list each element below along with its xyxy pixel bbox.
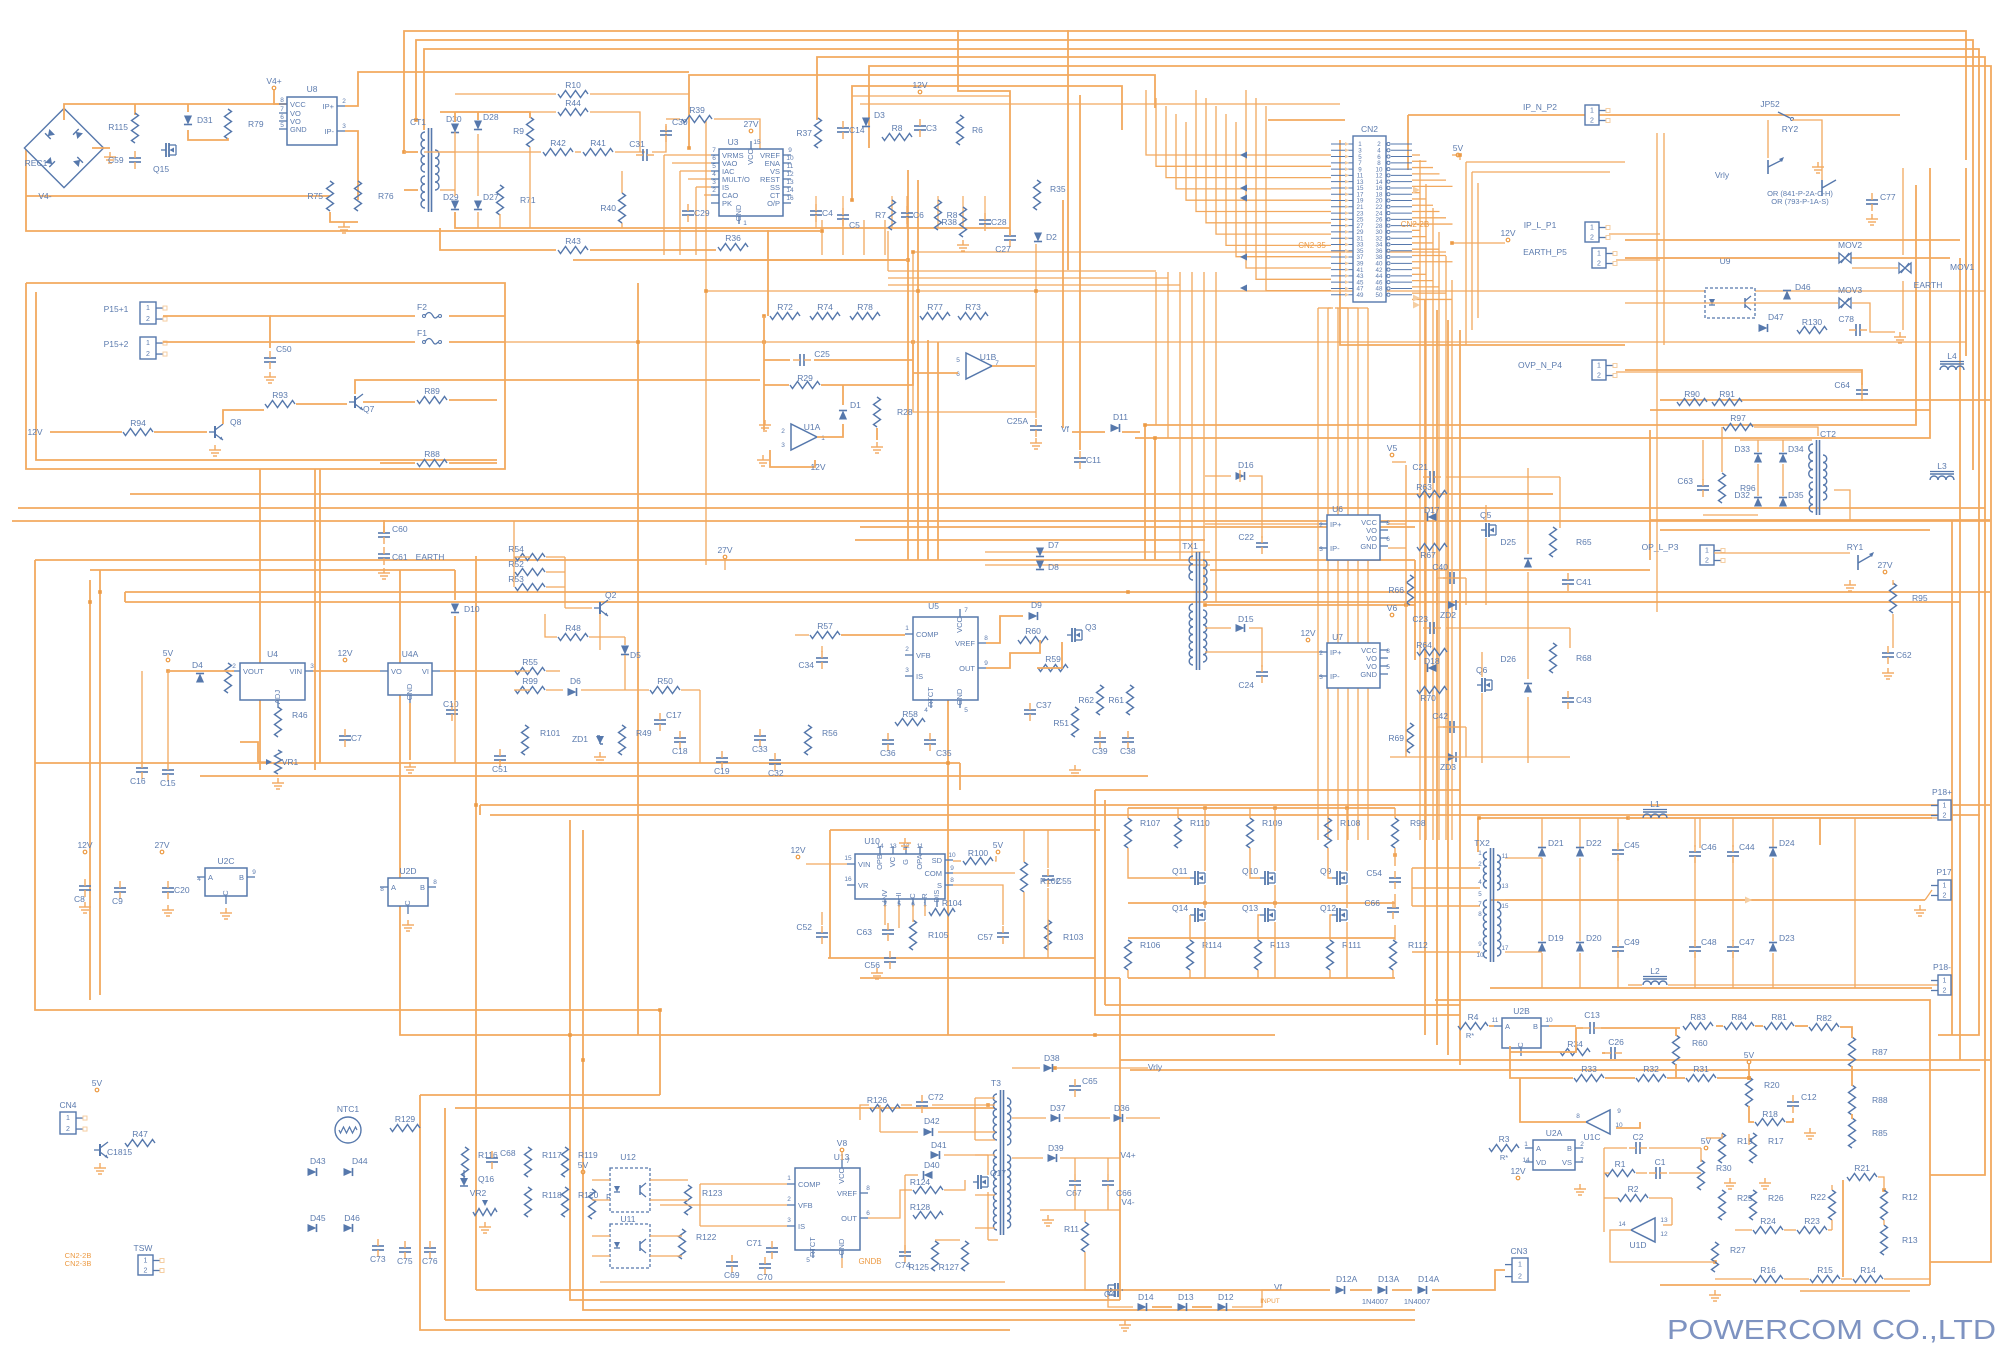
bus arrow <box>1240 195 1247 202</box>
wire h y172 <box>1472 171 1610 173</box>
diode D37 <box>1051 1114 1060 1122</box>
svg-text:R52: R52 <box>508 559 524 569</box>
svg-text:R88: R88 <box>424 449 440 459</box>
wire 5v r19 <box>1706 1137 1722 1139</box>
svg-text:A: A <box>208 873 213 882</box>
svg-text:R51: R51 <box>1053 718 1069 728</box>
wire jp52 down <box>1792 120 1822 180</box>
stub <box>124 592 126 602</box>
resistor R41 <box>583 149 613 156</box>
svg-text:R36: R36 <box>725 233 741 243</box>
wire out bot stub <box>1617 953 1619 988</box>
svg-text:C55: C55 <box>1056 876 1072 886</box>
wire r54 l stub <box>514 556 530 558</box>
wire p17 link <box>1925 890 1932 900</box>
svg-text:C29: C29 <box>694 208 710 218</box>
diode D23 <box>1769 943 1777 952</box>
wire res top stub <box>1127 808 1129 818</box>
wire u1d pin13 <box>1663 1224 1672 1226</box>
wire r24 r23 <box>1784 1229 1796 1231</box>
wire c2 r30 <box>1649 1147 1701 1149</box>
svg-text:C22: C22 <box>1238 532 1254 542</box>
svg-text:U2C: U2C <box>217 856 234 866</box>
svg-text:Q13: Q13 <box>1242 903 1258 913</box>
wire r75 r76 <box>330 212 358 222</box>
wire hb rail m <box>1128 902 1395 904</box>
wire c42 top <box>1437 726 1466 728</box>
transformer TX1 <box>1196 552 1198 670</box>
wire CN2 harness left <box>1146 90 1331 155</box>
wire above logo <box>1800 1290 1910 1292</box>
svg-text:R74: R74 <box>817 302 833 312</box>
svg-text:4: 4 <box>1478 879 1482 886</box>
bus arrow <box>1240 185 1247 192</box>
svg-text:D39: D39 <box>1048 1143 1064 1153</box>
svg-text:D22: D22 <box>1586 838 1602 848</box>
transistor Q13 <box>1264 908 1266 922</box>
op-amp U1D <box>1631 1218 1655 1242</box>
relay contact 2 <box>1821 180 1823 196</box>
wire CN2 right stub <box>1412 298 1453 300</box>
resistor R24 <box>1753 1227 1783 1234</box>
stub2 <box>959 763 961 790</box>
svg-text:V5: V5 <box>1387 443 1398 453</box>
wire u12 stub l <box>592 1199 610 1201</box>
resistor R93 <box>265 401 295 408</box>
diode D18 <box>1428 664 1437 672</box>
wire CN2 right stub <box>1412 192 1420 194</box>
svg-text:RY1: RY1 <box>1847 542 1864 552</box>
resistor R33 <box>1574 1075 1604 1082</box>
relay RY2 <box>1778 112 1790 118</box>
wire bus 9 <box>1067 30 1069 270</box>
svg-text:8: 8 <box>950 877 954 884</box>
svg-text:R70: R70 <box>1420 693 1436 703</box>
wire r57 u5 <box>841 634 905 636</box>
wire q5 src <box>1485 538 1487 605</box>
wire CN2 harness left <box>1156 98 1331 166</box>
resistor R87 <box>1849 1037 1856 1067</box>
svg-text:8: 8 <box>1478 911 1482 918</box>
wire r88 l <box>380 462 415 464</box>
wire out bot stub <box>1772 953 1774 988</box>
SCR Q16 <box>460 1178 468 1186</box>
svg-text:IP_N_P2: IP_N_P2 <box>1523 102 1557 112</box>
wire out mid stub2 <box>1541 900 1543 941</box>
junction <box>820 229 824 233</box>
wire CN2 right stub <box>1412 267 1420 269</box>
svg-text:1: 1 <box>144 1258 148 1265</box>
ground <box>225 908 227 913</box>
wire CN2 harness left drop <box>1191 272 1193 560</box>
svg-text:8: 8 <box>984 635 988 642</box>
svg-text:15: 15 <box>753 139 761 146</box>
transistor Q8 <box>214 426 216 438</box>
wire hb drain col <box>1346 808 1348 871</box>
wire q7 up <box>355 380 505 394</box>
svg-text:CT2: CT2 <box>1820 429 1836 439</box>
svg-text:9: 9 <box>252 869 256 876</box>
svg-text:D28: D28 <box>483 112 499 122</box>
wire u4 in <box>168 670 234 672</box>
junction <box>1458 153 1462 157</box>
svg-text:A: A <box>1505 1022 1510 1031</box>
wire d40 l <box>905 1174 918 1176</box>
svg-text:MOV2: MOV2 <box>1838 240 1862 250</box>
svg-text:R68: R68 <box>1576 653 1592 663</box>
wire r5x col <box>564 557 566 608</box>
capacitor C40 <box>1449 572 1451 584</box>
wire u1a 12v <box>770 450 815 467</box>
wire v drop 1 <box>907 170 909 560</box>
transistor Q9 <box>1336 871 1338 885</box>
svg-text:COMP: COMP <box>916 630 939 639</box>
diode D42 <box>924 1128 933 1136</box>
resistor R119 <box>562 1147 569 1177</box>
resistor R34 <box>1560 1049 1590 1056</box>
resistor R58 <box>895 719 925 726</box>
wire IP rail <box>1625 239 1960 241</box>
wire bottom rail 1 <box>570 1319 1415 1321</box>
svg-text:1N4007: 1N4007 <box>1404 1297 1430 1306</box>
w <box>1616 1122 1640 1128</box>
diode D27 <box>474 201 482 210</box>
resistor R37 <box>815 118 822 148</box>
wire q7 r89 <box>363 401 415 403</box>
wire ipnp2 out <box>1609 114 1640 116</box>
wire r50 r <box>681 689 700 691</box>
resistor R106 <box>1125 940 1132 970</box>
zener ZD1 <box>596 736 604 744</box>
diode D32 <box>1754 498 1762 507</box>
svg-text:7: 7 <box>1580 1157 1584 1164</box>
wire out bot stub <box>1732 953 1734 988</box>
wire c66 bot <box>1107 1192 1109 1210</box>
junction <box>568 1033 572 1037</box>
resistor R38 <box>960 207 967 237</box>
wire v8 vcc <box>841 1152 843 1160</box>
wire rm frame <box>1340 140 1625 345</box>
svg-text:C30: C30 <box>672 117 688 127</box>
svg-text:1: 1 <box>1943 803 1947 810</box>
svg-text:R90: R90 <box>1684 389 1700 399</box>
resistor R78 <box>850 313 880 320</box>
svg-text:R83: R83 <box>1690 1012 1706 1022</box>
ground <box>1714 1290 1716 1295</box>
power 27V RY1 <box>1883 570 1887 574</box>
svg-text:C2: C2 <box>1633 1132 1644 1142</box>
wire r1 l <box>1604 1172 1609 1174</box>
svg-text:5V: 5V <box>993 840 1004 850</box>
svg-text:C34: C34 <box>798 660 814 670</box>
svg-text:INPUT: INPUT <box>1260 1298 1280 1305</box>
resistor R67 <box>1417 544 1447 551</box>
diode D19 <box>1538 943 1546 952</box>
resistor R64 <box>1417 649 1447 656</box>
wire ct2 right <box>1834 490 1850 520</box>
fuse F2 <box>425 313 438 319</box>
junction <box>1034 289 1038 293</box>
wire c54 stub <box>1394 848 1396 866</box>
wire hb mid col <box>1274 885 1276 908</box>
wire v x1472 <box>1471 172 1473 330</box>
svg-text:R47: R47 <box>132 1129 148 1139</box>
wire bundle drop a <box>887 231 889 271</box>
svg-text:2: 2 <box>1319 650 1323 657</box>
wire r21 r22 <box>1831 1185 1833 1190</box>
svg-text:Q9: Q9 <box>1320 866 1332 876</box>
svg-text:C71: C71 <box>746 1238 762 1248</box>
wire U1B loop <box>913 252 1036 412</box>
svg-text:1: 1 <box>905 625 909 632</box>
svg-text:C37: C37 <box>1036 700 1052 710</box>
wire hb left2 <box>1104 800 1106 1005</box>
svg-text:CN4: CN4 <box>59 1100 76 1110</box>
wire c66 top <box>1107 1158 1109 1174</box>
wire r88 r <box>449 462 497 464</box>
svg-text:R21: R21 <box>1854 1163 1870 1173</box>
wire br rail 1 <box>1120 1059 1990 1061</box>
wire t3 stub <box>975 1227 995 1229</box>
diode D16 <box>1236 472 1245 480</box>
junction <box>1713 1260 1717 1264</box>
wire l2 in <box>1628 984 1642 986</box>
wire gate q12 <box>1330 915 1332 940</box>
wire d33 d32 <box>1757 464 1759 496</box>
svg-text:C18: C18 <box>672 746 688 756</box>
diode D6 <box>568 688 577 696</box>
svg-text:R27: R27 <box>1730 1245 1746 1255</box>
wire u6 ip+ <box>1388 523 1406 525</box>
svg-text:R101: R101 <box>540 728 561 738</box>
wire p15 f2 <box>163 316 270 348</box>
svg-text:VFB: VFB <box>916 651 931 660</box>
wire bl v2 <box>444 1108 446 1320</box>
stub <box>454 112 456 122</box>
wire brf v <box>1842 1180 1844 1277</box>
wire u10 drop <box>1119 978 1121 1060</box>
wire bl frame top <box>420 1094 660 1096</box>
svg-text:R57: R57 <box>817 621 833 631</box>
svg-text:GNDB: GNDB <box>858 1257 881 1266</box>
resistor R49 <box>619 725 626 755</box>
wire c16 top <box>141 671 143 762</box>
resistor R4 <box>1458 1023 1488 1030</box>
junction <box>1747 1076 1751 1080</box>
bus arrow <box>1413 295 1420 302</box>
diode D11 <box>1111 424 1120 432</box>
svg-text:GND: GND <box>955 688 964 705</box>
capacitor C47 <box>1727 946 1739 948</box>
capacitor C62 <box>1882 652 1894 654</box>
junction <box>1203 901 1207 905</box>
wire CN2 harness left drop <box>1167 272 1169 438</box>
thermistor NTC1 <box>335 1117 361 1143</box>
wire u3 cap top stub <box>937 196 939 228</box>
wire d28 col <box>477 134 479 196</box>
wire d42 v <box>879 1105 881 1132</box>
resistor R91 <box>1712 399 1742 406</box>
svg-text:10: 10 <box>786 155 794 162</box>
wire out top stub <box>1579 818 1581 847</box>
wire d26 v <box>1527 605 1529 679</box>
svg-text:C77: C77 <box>1880 192 1896 202</box>
diode D29 <box>451 201 459 210</box>
ground <box>1124 1320 1126 1325</box>
wire r50 drop <box>699 690 701 763</box>
svg-text:EARTH: EARTH <box>1914 280 1943 290</box>
capacitor C43 <box>1562 697 1574 699</box>
wire bundle left A <box>888 277 1168 279</box>
svg-text:14: 14 <box>1522 1157 1530 1164</box>
wire rail y521 <box>12 520 1990 522</box>
svg-text:R46: R46 <box>292 710 308 720</box>
svg-text:5V: 5V <box>92 1078 103 1088</box>
wire CN2 harness left drop <box>1203 272 1205 592</box>
svg-text:R94: R94 <box>130 418 146 428</box>
svg-text:D14: D14 <box>1138 1292 1154 1302</box>
optocoupler U9 <box>1705 288 1755 318</box>
svg-text:R13: R13 <box>1902 1235 1918 1245</box>
wire r126 l <box>860 1105 869 1120</box>
stub r115 <box>134 104 136 115</box>
wire E rail <box>1625 257 1950 259</box>
ground <box>1809 1128 1811 1133</box>
wire r2 r <box>1649 1197 1672 1199</box>
wire out q3 <box>986 640 1040 668</box>
svg-text:TX2: TX2 <box>1474 838 1490 848</box>
svg-text:D13A: D13A <box>1378 1274 1400 1284</box>
svg-text:3: 3 <box>1319 546 1323 553</box>
resistor R82 <box>1809 1024 1839 1031</box>
wire ovp out <box>1616 371 1862 373</box>
wire r14 r <box>1884 1278 1930 1280</box>
wire below CN2 link <box>1328 307 1333 309</box>
capacitor C16 <box>136 767 148 769</box>
wire out bot stub <box>1541 953 1543 988</box>
wire mov1 v2 <box>1902 281 1904 330</box>
wire v x1478 <box>1477 183 1479 318</box>
connector CN3 <box>1512 1258 1528 1282</box>
wire out rail2 <box>1490 899 1925 901</box>
diode D30 <box>451 124 459 133</box>
svg-text:D10: D10 <box>464 604 480 614</box>
capacitor C44 <box>1727 851 1739 853</box>
wire l1 out <box>1668 817 1938 819</box>
svg-text:U2B: U2B <box>1513 1006 1530 1016</box>
wire u11 stub r <box>650 1255 682 1257</box>
svg-text:2: 2 <box>905 646 909 653</box>
wire CN2 harness left drop <box>1155 272 1157 425</box>
power 12V U10 <box>796 855 800 859</box>
svg-text:R42: R42 <box>550 138 566 148</box>
svg-text:U8: U8 <box>307 84 318 94</box>
wire mov1 row <box>1852 267 1898 269</box>
svg-text:Q7: Q7 <box>363 404 375 414</box>
ground <box>383 568 385 573</box>
svg-text:R128: R128 <box>910 1202 931 1212</box>
svg-text:13: 13 <box>786 179 794 186</box>
svg-text:C52: C52 <box>796 922 812 932</box>
svg-text:R3: R3 <box>1499 1134 1510 1144</box>
capacitor C42 <box>1449 721 1451 733</box>
diode D39 <box>1048 1154 1057 1162</box>
svg-text:L2: L2 <box>1650 966 1660 976</box>
wire c21 row <box>1446 476 1560 478</box>
capacitor C23 <box>1429 622 1431 634</box>
svg-text:C41: C41 <box>1576 577 1592 587</box>
resistor R63 <box>1417 491 1447 498</box>
svg-text:1: 1 <box>1518 1262 1522 1269</box>
power 27V U3 <box>749 129 753 133</box>
diode D7 <box>1036 548 1044 557</box>
svg-text:L3: L3 <box>1937 461 1947 471</box>
resistor R35 <box>1034 180 1041 210</box>
svg-text:C20: C20 <box>174 885 190 895</box>
capacitor C64 <box>1856 389 1868 391</box>
wire CN2 harness left <box>1226 114 1331 245</box>
svg-text:4: 4 <box>924 707 928 714</box>
svg-text:IP-: IP- <box>324 127 334 136</box>
wire v x948 <box>947 700 949 1035</box>
wire hb src col <box>1346 922 1348 978</box>
wire r48 d5 <box>589 636 625 638</box>
wire u13 comp <box>700 1183 787 1185</box>
wire rail A <box>125 591 1990 593</box>
diode D15 <box>1236 624 1245 632</box>
wire top bus 3 <box>424 49 1979 1035</box>
connector conn <box>1592 248 1606 268</box>
wire u3 lpin <box>704 194 711 196</box>
wire hb drain col <box>1274 808 1276 871</box>
wire d10 dn <box>454 616 456 700</box>
wire top mid bundle 2 <box>852 95 1010 97</box>
wire out bot stub <box>1579 953 1581 988</box>
wire r24 l <box>1735 1229 1752 1231</box>
varistor MOV2 <box>1839 253 1845 263</box>
svg-text:C47: C47 <box>1739 937 1755 947</box>
svg-text:C31: C31 <box>629 139 645 149</box>
wire 27v stub <box>724 560 726 570</box>
svg-text:D3: D3 <box>874 110 885 120</box>
diode D13 <box>1178 1303 1187 1311</box>
wire u11 stub l <box>592 1235 610 1237</box>
w <box>1605 1077 1635 1079</box>
svg-text:7: 7 <box>712 147 716 154</box>
svg-text:D24: D24 <box>1779 838 1795 848</box>
svg-text:D33: D33 <box>1734 444 1750 454</box>
svg-text:VS: VS <box>1562 1158 1572 1167</box>
resistor R89 <box>417 397 447 404</box>
wire r44 l <box>455 111 556 113</box>
svg-text:C: C <box>221 890 230 896</box>
transistor Q7 <box>354 396 356 408</box>
svg-text:C44: C44 <box>1739 842 1755 852</box>
wire ct2 rail2 <box>1660 529 1930 531</box>
wire c52 top <box>821 912 823 925</box>
svg-text:R82: R82 <box>1816 1013 1832 1023</box>
wire CN2 right stub <box>1412 273 1427 275</box>
svg-text:CN2-3B: CN2-3B <box>65 1259 92 1268</box>
svg-text:C25A: C25A <box>1007 416 1029 426</box>
svg-text:R7: R7 <box>875 210 886 220</box>
IC U2B <box>1502 1018 1541 1048</box>
wire D2 drop <box>1035 244 1037 418</box>
wire ct1 d30 <box>440 151 455 153</box>
wire right frame B <box>1145 185 1916 425</box>
wire r39 l <box>666 118 680 120</box>
wire r55 l <box>516 670 530 672</box>
